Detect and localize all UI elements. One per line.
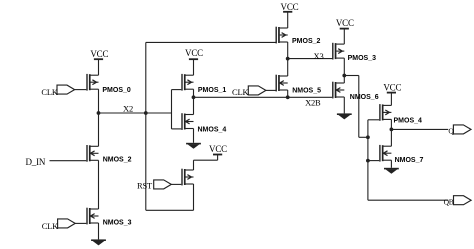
svg-text:X2B: X2B xyxy=(305,97,321,107)
svg-text:PMOS_4: PMOS_4 xyxy=(394,117,423,124)
svg-text:VCC: VCC xyxy=(90,49,108,59)
svg-text:PMOS_1: PMOS_1 xyxy=(198,87,227,94)
svg-text:QB: QB xyxy=(444,197,454,206)
svg-text:VCC: VCC xyxy=(209,144,227,154)
svg-text:CLK: CLK xyxy=(232,87,249,97)
svg-text:NMOS_7: NMOS_7 xyxy=(395,157,424,164)
svg-text:PMOS_3: PMOS_3 xyxy=(348,55,377,62)
svg-text:CLK: CLK xyxy=(41,87,58,97)
svg-text:RST: RST xyxy=(137,180,153,190)
svg-text:VCC: VCC xyxy=(336,18,354,28)
svg-text:NMOS_2: NMOS_2 xyxy=(103,157,132,164)
svg-text:VCC: VCC xyxy=(383,82,401,92)
svg-text:Q: Q xyxy=(448,126,454,135)
svg-text:NMOS_6: NMOS_6 xyxy=(350,94,379,101)
svg-text:D_IN: D_IN xyxy=(25,157,45,167)
svg-text:PMOS_2: PMOS_2 xyxy=(292,38,321,45)
svg-text:NMOS_5: NMOS_5 xyxy=(292,88,321,95)
svg-text:VCC: VCC xyxy=(185,48,203,58)
svg-text:X3: X3 xyxy=(314,51,324,61)
svg-text:CLK: CLK xyxy=(42,221,59,231)
svg-text:NMOS_3: NMOS_3 xyxy=(103,220,132,227)
svg-text:X2: X2 xyxy=(123,104,133,114)
svg-text:NMOS_4: NMOS_4 xyxy=(198,127,227,134)
svg-text:PMOS_0: PMOS_0 xyxy=(102,87,131,94)
svg-text:VCC: VCC xyxy=(281,2,299,12)
